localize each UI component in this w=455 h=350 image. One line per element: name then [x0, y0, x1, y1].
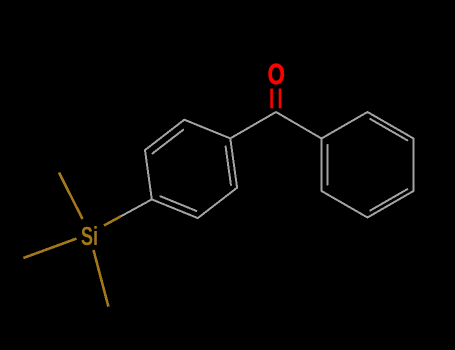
olive bonds of trimethylsilyl group: [23, 173, 120, 307]
wire: left ring inner double bond right edge: [226, 147, 231, 185]
wire: dark half of Si-ring bond: [121, 199, 152, 216]
wire: olive half of Si-ring bond: [104, 216, 121, 225]
wire: right ring inner double bond top-right edge: [370, 119, 407, 140]
wire: left ring inner double bond top-left edge: [153, 130, 184, 154]
wire: Si left-methyl bond: [23, 239, 76, 258]
node: right benzene ring outline: [322, 112, 414, 218]
wire: bond carbonyl C to right ring ipso: [276, 112, 322, 139]
capacitor-like C=O double bond (red): [272, 89, 280, 109]
wire: right ring inner double bond left edge: [327, 145, 329, 185]
svg-text:O: O: [268, 59, 285, 91]
wire: Si up-methyl bond: [59, 173, 83, 219]
wire: left ring inner double bond bottom-left edge: [161, 196, 197, 211]
svg-text:Si: Si: [81, 223, 98, 251]
wire: right ring inner double bond bottom-right edge: [370, 189, 407, 210]
node: left benzene ring outline: [145, 120, 237, 218]
wire: bond carbonyl C to left ring ipso: [230, 112, 276, 138]
wire: Si down-methyl bond: [94, 250, 109, 307]
